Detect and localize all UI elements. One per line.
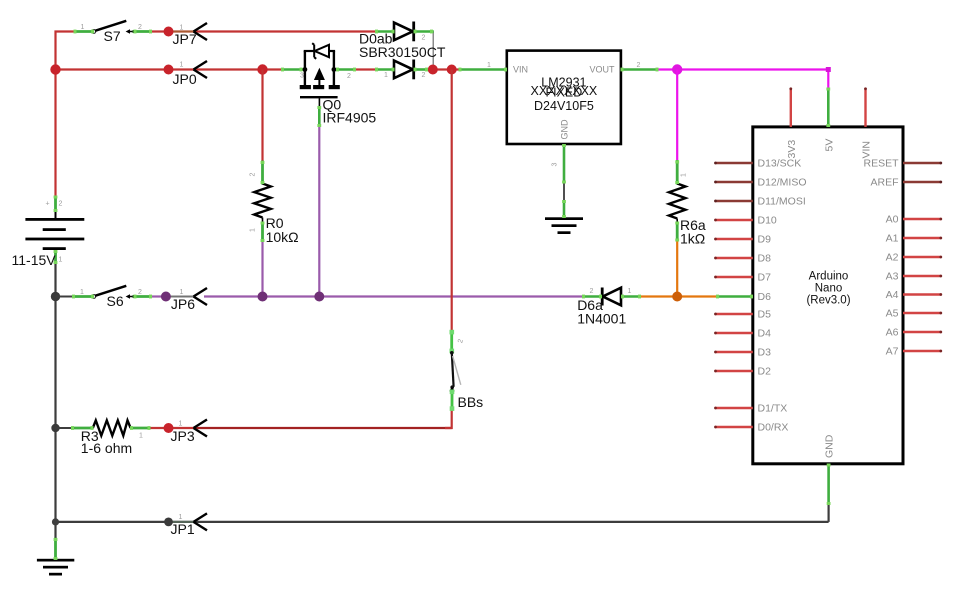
wire dark-red JP3 row xyxy=(196,427,452,429)
switch BBs xyxy=(449,330,461,411)
svg-text:1: 1 xyxy=(180,25,184,32)
svg-text:D4: D4 xyxy=(758,328,772,340)
svg-text:A5: A5 xyxy=(886,308,899,320)
svg-text:D12/MISO: D12/MISO xyxy=(758,177,807,189)
arduino pin D3 stub xyxy=(714,351,753,354)
svg-text:2: 2 xyxy=(347,73,351,80)
wire magenta VOUT to 5V xyxy=(659,67,831,88)
resistor R0 xyxy=(254,161,271,243)
svg-text:1: 1 xyxy=(81,24,85,31)
label Q0 xyxy=(323,97,377,126)
wire red JP3 corner xyxy=(445,410,452,428)
svg-text:Nano: Nano xyxy=(815,283,843,295)
svg-text:Arduino: Arduino xyxy=(809,271,849,283)
svg-text:D3: D3 xyxy=(758,347,772,359)
wire orange D6a to arduino D6 xyxy=(641,295,716,297)
arduino pin A0 stub xyxy=(903,218,942,221)
header JP7 xyxy=(164,23,208,40)
arduino pin D7 stub xyxy=(714,276,753,279)
wire green arduino 5V lead xyxy=(827,88,830,127)
arduino pin D10 stub xyxy=(714,219,753,222)
arduino pin D1/TX stub xyxy=(714,407,753,410)
arduino pin D0/RX stub xyxy=(714,426,753,429)
wire magenta R6a branch xyxy=(676,70,678,162)
svg-text:D7: D7 xyxy=(758,272,772,284)
resistor R3 xyxy=(56,420,169,435)
svg-text:A0: A0 xyxy=(886,214,899,226)
resistor R6a xyxy=(669,160,686,242)
label arduino right pins xyxy=(863,158,899,358)
node junction R0 top xyxy=(257,64,267,74)
label JP0 xyxy=(173,71,197,87)
arduino pin D4 stub xyxy=(714,332,753,335)
svg-text:D10: D10 xyxy=(758,215,777,227)
svg-text:2: 2 xyxy=(59,201,63,208)
label R0 xyxy=(266,215,299,245)
header JP1 xyxy=(164,513,207,530)
svg-text:1: 1 xyxy=(139,433,143,440)
node junction D0ab cathode xyxy=(428,65,438,75)
svg-text:GND: GND xyxy=(560,119,570,140)
switch S6 xyxy=(56,286,152,299)
node junction R6a D6 xyxy=(672,292,682,302)
svg-text:11-15V: 11-15V xyxy=(12,252,57,268)
svg-text:BBs: BBs xyxy=(458,394,484,410)
arduino pin D11/MOSI stub xyxy=(714,200,753,203)
svg-text:D1/TX: D1/TX xyxy=(758,403,788,415)
label JP3 xyxy=(171,428,195,444)
svg-text:1: 1 xyxy=(487,62,491,69)
svg-text:1: 1 xyxy=(59,257,63,264)
wire black JP1 row xyxy=(56,505,829,522)
svg-text:2: 2 xyxy=(590,288,594,295)
wire red BBs vertical xyxy=(451,70,453,332)
wire purple JP6 row xyxy=(152,295,583,297)
wire terminals (green end caps) xyxy=(54,30,831,560)
wire green ground lead bottom left xyxy=(54,538,57,560)
wire red Q0 drain to D0ab xyxy=(356,68,376,70)
wire green Q0 drain lead xyxy=(334,68,356,71)
svg-text:D9: D9 xyxy=(758,234,772,246)
svg-text:GND: GND xyxy=(824,434,836,458)
arduino pin AREF stub xyxy=(903,181,942,184)
node junction VIN branch xyxy=(447,65,457,75)
svg-text:D0/RX: D0/RX xyxy=(758,422,789,434)
svg-text:D24V10F5: D24V10F5 xyxy=(534,99,594,113)
diode D0ab lower xyxy=(394,60,428,80)
svg-text:D13/SCK: D13/SCK xyxy=(758,158,802,170)
header JP3 xyxy=(164,420,208,437)
node junction JP1 xyxy=(52,518,59,525)
svg-text:A4: A4 xyxy=(886,289,899,301)
label JP7 xyxy=(173,31,197,47)
svg-text:SBR30150CT: SBR30150CT xyxy=(359,44,446,60)
label arduino title xyxy=(806,271,850,307)
label arduino top pins xyxy=(786,139,873,159)
arduino pin RESET stub xyxy=(903,162,942,165)
svg-text:1: 1 xyxy=(179,421,183,428)
header JP0 xyxy=(164,61,208,78)
wire black battery minus rail xyxy=(54,263,56,539)
node junction JP0/battery xyxy=(50,64,60,74)
arduino pin A7 stub xyxy=(903,350,942,353)
wire green arduino D6 lead xyxy=(716,295,753,298)
svg-text:(Rev3.0): (Rev3.0) xyxy=(806,295,850,307)
wire green D0ab upper anode lead xyxy=(375,30,395,33)
svg-text:10kΩ: 10kΩ xyxy=(266,229,299,245)
ground LM2931 xyxy=(545,217,583,234)
svg-text:3: 3 xyxy=(552,163,559,167)
svg-text:D6: D6 xyxy=(758,291,772,303)
wire green LM2931 GND lead xyxy=(563,144,566,218)
svg-text:JP7: JP7 xyxy=(173,31,197,47)
IC U2 Arduino Nano box xyxy=(753,127,903,464)
wire green Q0 source lead xyxy=(281,68,305,71)
label R3 xyxy=(81,428,132,456)
arduino top pin VIN stub xyxy=(864,87,867,127)
regulator U1 LM2931 box xyxy=(507,51,621,144)
wire purple R0 bottom lead xyxy=(261,241,263,297)
label 11-15V xyxy=(12,252,57,268)
svg-text:A3: A3 xyxy=(886,271,899,283)
svg-text:AREF: AREF xyxy=(870,177,898,189)
svg-text:D5: D5 xyxy=(758,309,772,321)
node junction R0 bottom xyxy=(258,292,268,302)
wire green arduino GND lead xyxy=(827,464,830,505)
arduino pin D13/SCK stub xyxy=(714,162,753,165)
svg-text:1: 1 xyxy=(180,289,184,296)
svg-text:RESET: RESET xyxy=(863,158,899,170)
wire orange R6a bottom xyxy=(676,241,678,297)
label BBs xyxy=(458,394,484,410)
arduino top pin 3V3 stub xyxy=(789,87,792,127)
label JP6 xyxy=(171,296,195,312)
wire green LM2931 VOUT lead xyxy=(621,68,659,71)
svg-text:S7: S7 xyxy=(104,28,121,44)
svg-text:1: 1 xyxy=(180,62,184,69)
arduino pin D2 stub xyxy=(714,370,753,373)
node junction Q0 gate xyxy=(314,292,324,302)
arduino pin A1 stub xyxy=(903,237,942,240)
svg-text:JP0: JP0 xyxy=(173,71,197,87)
arduino pin A5 stub xyxy=(903,312,942,315)
svg-text:JP1: JP1 xyxy=(171,521,195,537)
svg-text:1: 1 xyxy=(250,228,257,232)
arduino pin D9 stub xyxy=(714,238,753,241)
label S7 xyxy=(104,28,121,44)
svg-text:2: 2 xyxy=(138,24,142,31)
wire red JP0 row xyxy=(56,68,282,70)
svg-text:A2: A2 xyxy=(886,252,899,264)
svg-text:VOUT: VOUT xyxy=(589,65,615,75)
svg-text:IRF4905: IRF4905 xyxy=(323,110,377,126)
label LM2931 texts xyxy=(513,65,615,140)
svg-text:1kΩ: 1kΩ xyxy=(680,231,705,247)
svg-text:D2: D2 xyxy=(758,366,772,378)
arduino pin A3 stub xyxy=(903,275,942,278)
transistor Q0 IRF4905 xyxy=(300,43,340,127)
svg-text:+: + xyxy=(46,201,50,208)
svg-text:VIN: VIN xyxy=(861,141,873,159)
wire red R0 top lead xyxy=(261,70,263,162)
node junction magenta R6a xyxy=(672,64,682,74)
label S6 xyxy=(107,293,124,309)
svg-text:2: 2 xyxy=(422,72,426,79)
wire green LM2931 VIN lead xyxy=(459,68,507,71)
svg-text:JP3: JP3 xyxy=(171,428,195,444)
diode D6a 1N4001 xyxy=(602,288,621,306)
svg-text:2: 2 xyxy=(250,173,257,177)
node junction battery minus xyxy=(51,292,60,301)
switch S7 xyxy=(74,21,152,34)
wire cathode join vertical xyxy=(432,32,434,70)
svg-text:D8: D8 xyxy=(758,253,772,265)
arduino pin D12/MISO stub xyxy=(714,181,753,184)
svg-text:1: 1 xyxy=(628,288,632,295)
label R6a xyxy=(680,217,706,247)
svg-text:1: 1 xyxy=(681,173,688,177)
wire green D0ab lower anode lead xyxy=(375,68,395,71)
svg-text:VIN: VIN xyxy=(513,65,528,75)
svg-text:JP6: JP6 xyxy=(171,296,195,312)
svg-text:1-6 ohm: 1-6 ohm xyxy=(81,440,132,456)
wire purple Q0 gate lead xyxy=(318,126,320,297)
wire red JP7 row left xyxy=(56,32,75,195)
svg-text:FIXED: FIXED xyxy=(545,86,582,100)
svg-text:1: 1 xyxy=(384,72,388,79)
svg-text:5V: 5V xyxy=(823,139,835,152)
wire red JP3 dot to chevron xyxy=(169,427,197,429)
svg-text:A1: A1 xyxy=(886,233,899,245)
svg-text:A7: A7 xyxy=(886,346,899,358)
arduino pin A4 stub xyxy=(903,293,942,296)
wire green D6a left lead xyxy=(582,295,602,298)
svg-text:D11/MOSI: D11/MOSI xyxy=(758,196,806,208)
wire red JP7 row right xyxy=(152,30,376,32)
label arduino GND pin xyxy=(824,434,836,458)
label D0ab xyxy=(359,31,446,61)
arduino pin D5 stub xyxy=(714,313,753,316)
wire green D6a right lead xyxy=(621,295,641,298)
svg-text:1: 1 xyxy=(80,289,84,296)
svg-text:A6: A6 xyxy=(886,327,899,339)
label arduino left pins xyxy=(758,158,807,434)
arduino pin A6 stub xyxy=(903,331,942,334)
wire red between cathode nodes xyxy=(427,68,459,70)
pin numbers grey xyxy=(46,24,688,521)
node junction R3 left xyxy=(51,424,59,432)
svg-text:3: 3 xyxy=(300,73,304,80)
arduino pin A2 stub xyxy=(903,256,942,259)
ground battery xyxy=(37,559,74,576)
svg-text:3V3: 3V3 xyxy=(786,140,798,159)
svg-text:2: 2 xyxy=(637,62,641,69)
svg-text:1: 1 xyxy=(179,514,183,521)
svg-text:S6: S6 xyxy=(107,293,124,309)
svg-text:2: 2 xyxy=(138,289,142,296)
label D6a xyxy=(577,297,626,327)
battery BT1 xyxy=(25,194,84,264)
arduino pin D8 stub xyxy=(714,257,753,260)
header JP6 xyxy=(161,288,207,305)
svg-text:1N4001: 1N4001 xyxy=(577,311,626,327)
svg-text:2: 2 xyxy=(422,35,426,42)
diode D0ab upper xyxy=(394,22,434,42)
label JP1 xyxy=(171,521,195,537)
